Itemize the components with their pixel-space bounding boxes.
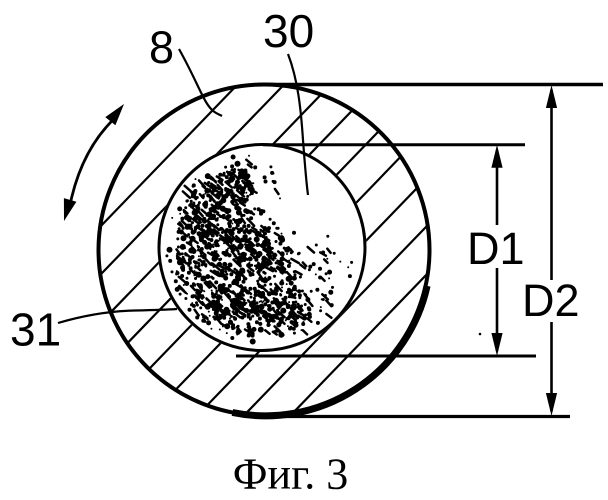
leader 31: [58, 309, 177, 323]
svg-text:D2: D2: [522, 275, 580, 326]
bottom extension line D1: [236, 355, 536, 358]
hatching of ring: [18, 4, 509, 496]
leader 30: [288, 54, 308, 195]
inner circle 30: [159, 145, 365, 351]
svg-text:31: 31: [10, 304, 61, 356]
leader 8: [179, 49, 222, 116]
svg-text:D1: D1: [467, 223, 525, 274]
dimension line D1: [491, 145, 502, 356]
top extension line D1: [263, 143, 525, 146]
bottom extension line D2: [264, 415, 570, 418]
svg-text:Фиг. 3: Фиг. 3: [233, 450, 348, 499]
svg-text:30: 30: [263, 5, 314, 57]
stray speck: [479, 333, 482, 336]
top extension line D2: [258, 83, 603, 87]
rotation arrow: [64, 104, 124, 221]
svg-text:8: 8: [149, 22, 174, 73]
outer ring 8: [99, 85, 430, 416]
dimension line D2: [546, 85, 557, 416]
stipple region 31: [167, 156, 352, 342]
